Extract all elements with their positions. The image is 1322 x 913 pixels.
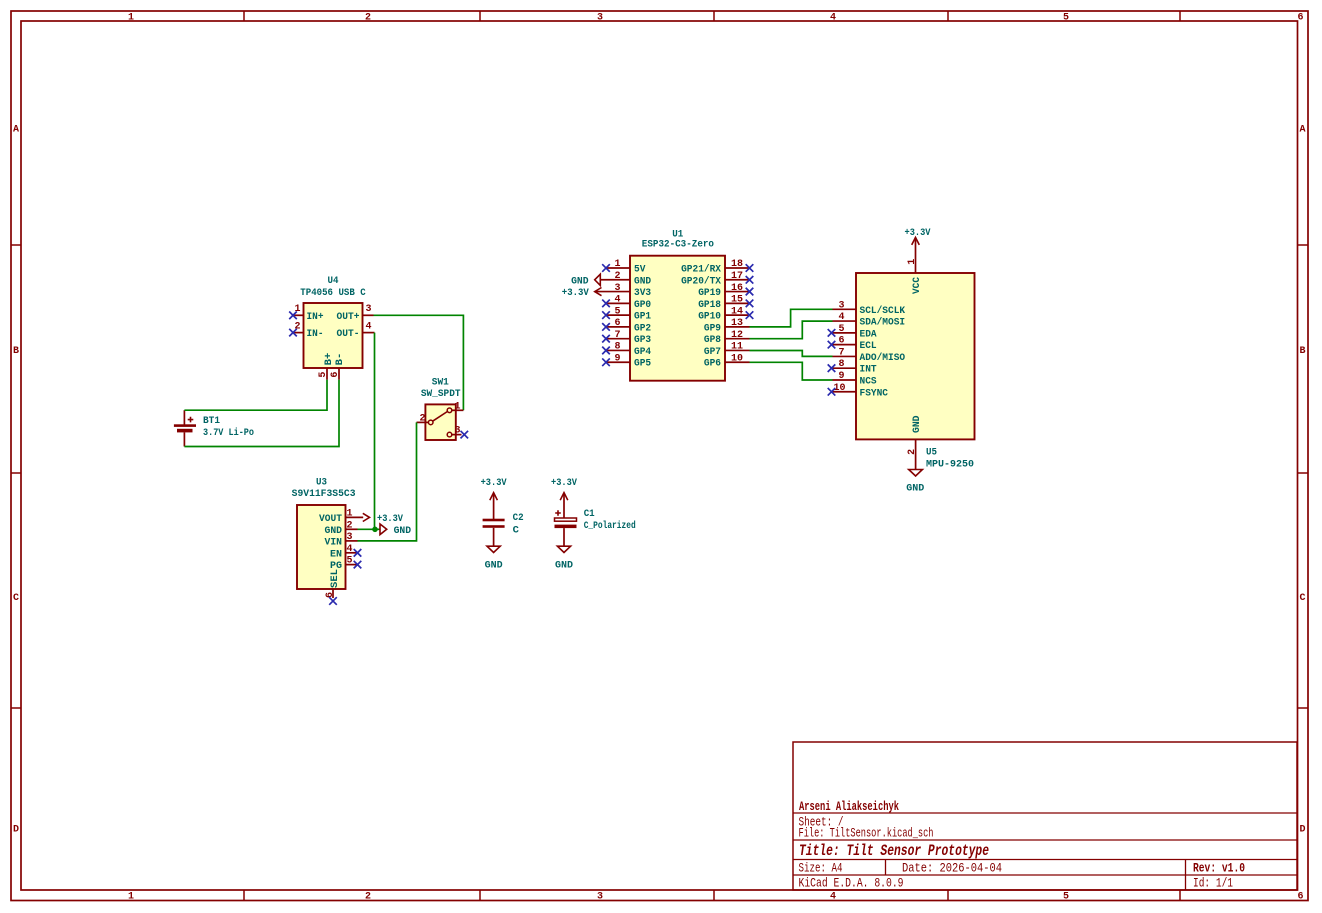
svg-text:SW1: SW1 xyxy=(432,376,449,388)
svg-text:NCS: NCS xyxy=(860,375,877,387)
svg-text:4: 4 xyxy=(365,321,371,332)
no-connect U5 pin6 ECL xyxy=(828,341,836,349)
MCU U1 ESP32-C3-Zero xyxy=(595,229,750,381)
junction GND node xyxy=(372,527,378,533)
svg-text:3V3: 3V3 xyxy=(634,287,651,299)
regulator U3 S9V11F3S5C3 xyxy=(292,477,364,599)
wire BT1 + to U4 pin5 B+ xyxy=(184,380,327,411)
global label +3.3V at U1 pin3 xyxy=(562,287,602,299)
svg-text:GP7: GP7 xyxy=(704,346,721,358)
svg-text:TP4056 USB C: TP4056 USB C xyxy=(300,287,366,299)
svg-text:VOUT: VOUT xyxy=(319,513,342,525)
svg-text:3: 3 xyxy=(597,13,603,24)
svg-text:C: C xyxy=(1299,593,1305,604)
svg-text:2: 2 xyxy=(907,449,918,455)
svg-text:12: 12 xyxy=(731,330,743,341)
svg-text:1: 1 xyxy=(907,259,918,265)
ground GND at U5 GND pin2 xyxy=(906,470,924,495)
svg-text:2: 2 xyxy=(614,271,620,282)
svg-text:GND: GND xyxy=(325,525,343,537)
svg-text:4: 4 xyxy=(614,295,620,306)
svg-text:B: B xyxy=(1299,346,1305,357)
svg-text:7: 7 xyxy=(838,347,844,358)
svg-text:GND: GND xyxy=(394,525,412,537)
svg-text:6: 6 xyxy=(1297,13,1303,24)
svg-text:GP4: GP4 xyxy=(634,346,651,358)
svg-text:ECL: ECL xyxy=(860,340,877,352)
svg-text:5: 5 xyxy=(318,372,329,378)
wire U3 GND pin2 to junction xyxy=(358,528,381,530)
svg-text:GND: GND xyxy=(571,275,589,287)
svg-text:5V: 5V xyxy=(634,264,646,276)
svg-text:B: B xyxy=(13,346,19,357)
no-connect U3 EN pin4 xyxy=(354,549,362,557)
ground GND below C1 xyxy=(555,546,573,571)
svg-text:16: 16 xyxy=(731,283,743,294)
wire U1 GP7 to U5 ADO/MISO xyxy=(750,351,833,357)
no-connect U1 pin9 GP5 xyxy=(602,358,610,366)
svg-text:GP6: GP6 xyxy=(704,358,721,370)
svg-text:B-: B- xyxy=(334,353,346,366)
svg-text:6: 6 xyxy=(325,592,336,598)
no-connect U1 pin15 GP18 xyxy=(746,300,754,308)
svg-text:GND: GND xyxy=(906,483,924,495)
wire U1 GP8 to U5 SDA/MOSI xyxy=(750,321,833,339)
wire U4 OUT- to GND junction xyxy=(374,333,376,530)
svg-text:1: 1 xyxy=(128,13,134,24)
no-connect U3 SEL pin6 xyxy=(329,597,337,605)
svg-text:U5: U5 xyxy=(926,447,937,459)
svg-text:ESP32-C3-Zero: ESP32-C3-Zero xyxy=(642,239,714,251)
svg-text:1: 1 xyxy=(128,892,134,903)
svg-text:GND: GND xyxy=(911,416,923,434)
svg-text:OUT-: OUT- xyxy=(337,328,360,340)
svg-text:1: 1 xyxy=(346,508,352,519)
svg-text:17: 17 xyxy=(731,271,743,282)
svg-text:GP5: GP5 xyxy=(634,358,651,370)
svg-text:4: 4 xyxy=(838,312,844,323)
no-connect U5 pin5 EDA xyxy=(828,329,836,337)
svg-text:3: 3 xyxy=(346,532,352,543)
svg-text:+3.3V: +3.3V xyxy=(481,477,508,489)
svg-text:GP20/TX: GP20/TX xyxy=(681,275,722,287)
svg-text:2: 2 xyxy=(419,413,425,424)
svg-text:GND: GND xyxy=(634,275,651,287)
svg-text:VIN: VIN xyxy=(325,536,343,548)
no-connect U1 pin8 GP4 xyxy=(602,347,610,355)
no-connect U1 pin4 GP0 xyxy=(602,300,610,308)
no-connect U5 pin8 INT xyxy=(828,364,836,372)
svg-text:15: 15 xyxy=(731,295,743,306)
svg-text:GP8: GP8 xyxy=(704,334,721,346)
wire SW1 pin2 to U3 VIN xyxy=(358,422,417,541)
power +3.3V at U5 VCC pin1 xyxy=(905,227,932,245)
svg-text:5: 5 xyxy=(346,556,352,567)
svg-text:2: 2 xyxy=(365,13,371,24)
global label GND at U3 GND pin2 xyxy=(380,524,411,537)
svg-text:3: 3 xyxy=(597,892,603,903)
svg-text:2: 2 xyxy=(365,892,371,903)
svg-text:1: 1 xyxy=(454,401,460,412)
svg-text:SEL: SEL xyxy=(329,569,341,588)
svg-text:GP0: GP0 xyxy=(634,299,651,311)
svg-text:+3.3V: +3.3V xyxy=(551,477,578,489)
no-connect U4 pin1 IN+ xyxy=(289,312,297,320)
svg-text:IN+: IN+ xyxy=(307,311,324,323)
svg-text:EN: EN xyxy=(330,548,342,560)
svg-text:3: 3 xyxy=(614,283,620,294)
svg-text:14: 14 xyxy=(731,306,743,317)
no-connect U1 pin17 GP20/TX xyxy=(746,276,754,284)
svg-text:GP21/RX: GP21/RX xyxy=(681,264,722,276)
svg-text:3.7V Li-Po: 3.7V Li-Po xyxy=(203,427,254,439)
no-connect U3 PG pin5 xyxy=(354,561,362,569)
svg-text:3: 3 xyxy=(838,300,844,311)
svg-text:6: 6 xyxy=(614,318,620,329)
battery BT1 xyxy=(174,410,254,446)
svg-text:3: 3 xyxy=(365,304,371,315)
global label GND at U1 pin2 xyxy=(571,274,600,287)
svg-text:BT1: BT1 xyxy=(203,415,220,427)
svg-text:13: 13 xyxy=(731,318,743,329)
svg-text:+3.3V: +3.3V xyxy=(377,513,404,525)
svg-text:11: 11 xyxy=(731,342,743,353)
svg-text:GND: GND xyxy=(485,560,503,572)
svg-text:7: 7 xyxy=(614,330,620,341)
svg-text:+3.3V: +3.3V xyxy=(562,287,590,299)
svg-text:GP1: GP1 xyxy=(634,311,651,323)
no-connect U1 pin6 GP2 xyxy=(602,323,610,331)
svg-text:Arseni Aliakseichyk: Arseni Aliakseichyk xyxy=(799,800,899,814)
ground GND below C2 xyxy=(485,546,503,571)
svg-text:C1: C1 xyxy=(584,508,595,520)
svg-text:EDA: EDA xyxy=(860,328,878,340)
svg-text:GP9: GP9 xyxy=(704,322,721,334)
svg-text:U4: U4 xyxy=(328,275,339,287)
no-connect U1 pin14 GP10 xyxy=(746,311,754,319)
svg-text:GP18: GP18 xyxy=(698,299,721,311)
svg-text:C: C xyxy=(513,524,520,536)
svg-text:C: C xyxy=(13,593,19,604)
svg-text:A: A xyxy=(13,125,19,136)
title block xyxy=(793,742,1297,891)
svg-text:8: 8 xyxy=(614,342,620,353)
svg-text:ADO/MISO: ADO/MISO xyxy=(860,352,906,364)
no-connect U5 pin10 FSYNC xyxy=(828,388,836,396)
no-connect U4 pin2 IN- xyxy=(289,329,297,337)
power +3.3V above C2 xyxy=(481,477,508,500)
svg-text:4: 4 xyxy=(830,13,836,24)
power +3.3V above C1 xyxy=(551,477,578,500)
svg-text:Date: 2026-04-04: Date: 2026-04-04 xyxy=(902,862,1002,876)
svg-text:6: 6 xyxy=(838,336,844,347)
svg-text:Title: Tilt Sensor Prototype: Title: Tilt Sensor Prototype xyxy=(799,842,989,860)
IC U4 TP4056 USB C charger xyxy=(293,275,375,379)
svg-text:5: 5 xyxy=(1063,892,1069,903)
wire U1 GP6 to U5 NCS xyxy=(750,362,833,380)
wire U1 GP9 to U5 SCL/SCLK xyxy=(750,309,833,327)
wire BT1 - to U4 pin6 B- xyxy=(184,380,339,447)
no-connect U1 pin7 GP3 xyxy=(602,335,610,343)
svg-text:1: 1 xyxy=(614,259,620,270)
switch SW1 SW_SPDT xyxy=(417,376,464,440)
svg-text:C_Polarized: C_Polarized xyxy=(584,520,636,532)
svg-text:D: D xyxy=(1299,825,1305,836)
svg-text:Size: A4: Size: A4 xyxy=(799,862,843,876)
wire U4 OUT+ to SW1 pin1 xyxy=(374,315,464,410)
no-connect U1 pin18 GP21/RX xyxy=(746,264,754,272)
no-connect U1 pin16 GP19 xyxy=(746,288,754,296)
svg-text:6: 6 xyxy=(1297,892,1303,903)
svg-text:D: D xyxy=(13,825,19,836)
svg-text:File: TiltSensor.kicad_sch: File: TiltSensor.kicad_sch xyxy=(799,827,934,841)
svg-text:8: 8 xyxy=(838,359,844,370)
svg-text:5: 5 xyxy=(838,324,844,335)
svg-text:9: 9 xyxy=(838,371,844,382)
svg-text:4: 4 xyxy=(830,892,836,903)
svg-text:3: 3 xyxy=(454,426,460,437)
svg-text:SCL/SCLK: SCL/SCLK xyxy=(860,305,906,317)
capacitor C2 xyxy=(483,497,524,546)
svg-text:MPU-9250: MPU-9250 xyxy=(926,459,974,471)
svg-text:SW_SPDT: SW_SPDT xyxy=(421,388,461,400)
svg-text:GND: GND xyxy=(555,560,573,572)
svg-text:Rev: v1.0: Rev: v1.0 xyxy=(1193,862,1245,876)
svg-text:5: 5 xyxy=(614,306,620,317)
no-connect SW1 pin3 xyxy=(461,431,469,439)
svg-text:GP19: GP19 xyxy=(698,287,721,299)
svg-text:2: 2 xyxy=(346,520,352,531)
svg-text:A: A xyxy=(1299,125,1305,136)
svg-text:INT: INT xyxy=(860,364,877,376)
svg-text:OUT+: OUT+ xyxy=(337,311,360,323)
svg-text:Id: 1/1: Id: 1/1 xyxy=(1193,877,1233,891)
svg-text:KiCad E.D.A. 8.0.9: KiCad E.D.A. 8.0.9 xyxy=(799,877,904,891)
svg-text:10: 10 xyxy=(731,353,743,364)
no-connect U1 pin5 GP1 xyxy=(602,311,610,319)
no-connect U1 pin1 5V xyxy=(602,264,610,272)
svg-text:FSYNC: FSYNC xyxy=(860,387,889,399)
svg-text:GP3: GP3 xyxy=(634,334,651,346)
global label +3.3V at U3 VOUT pin1 xyxy=(363,513,404,525)
svg-text:U3: U3 xyxy=(316,477,327,489)
capacitor C1 polarized xyxy=(555,497,636,546)
svg-text:18: 18 xyxy=(731,259,743,270)
svg-text:IN-: IN- xyxy=(307,328,324,340)
IMU U5 MPU-9250 xyxy=(833,243,975,471)
svg-text:5: 5 xyxy=(1063,13,1069,24)
svg-text:C2: C2 xyxy=(513,512,524,524)
svg-text:9: 9 xyxy=(614,353,620,364)
svg-text:SDA/MOSI: SDA/MOSI xyxy=(860,317,906,329)
svg-text:GP2: GP2 xyxy=(634,322,651,334)
svg-text:4: 4 xyxy=(346,544,352,555)
svg-text:S9V11F3S5C3: S9V11F3S5C3 xyxy=(292,488,356,500)
svg-text:VCC: VCC xyxy=(911,276,923,294)
svg-text:+3.3V: +3.3V xyxy=(905,227,932,239)
svg-text:GP10: GP10 xyxy=(698,311,721,323)
svg-text:6: 6 xyxy=(330,372,341,378)
